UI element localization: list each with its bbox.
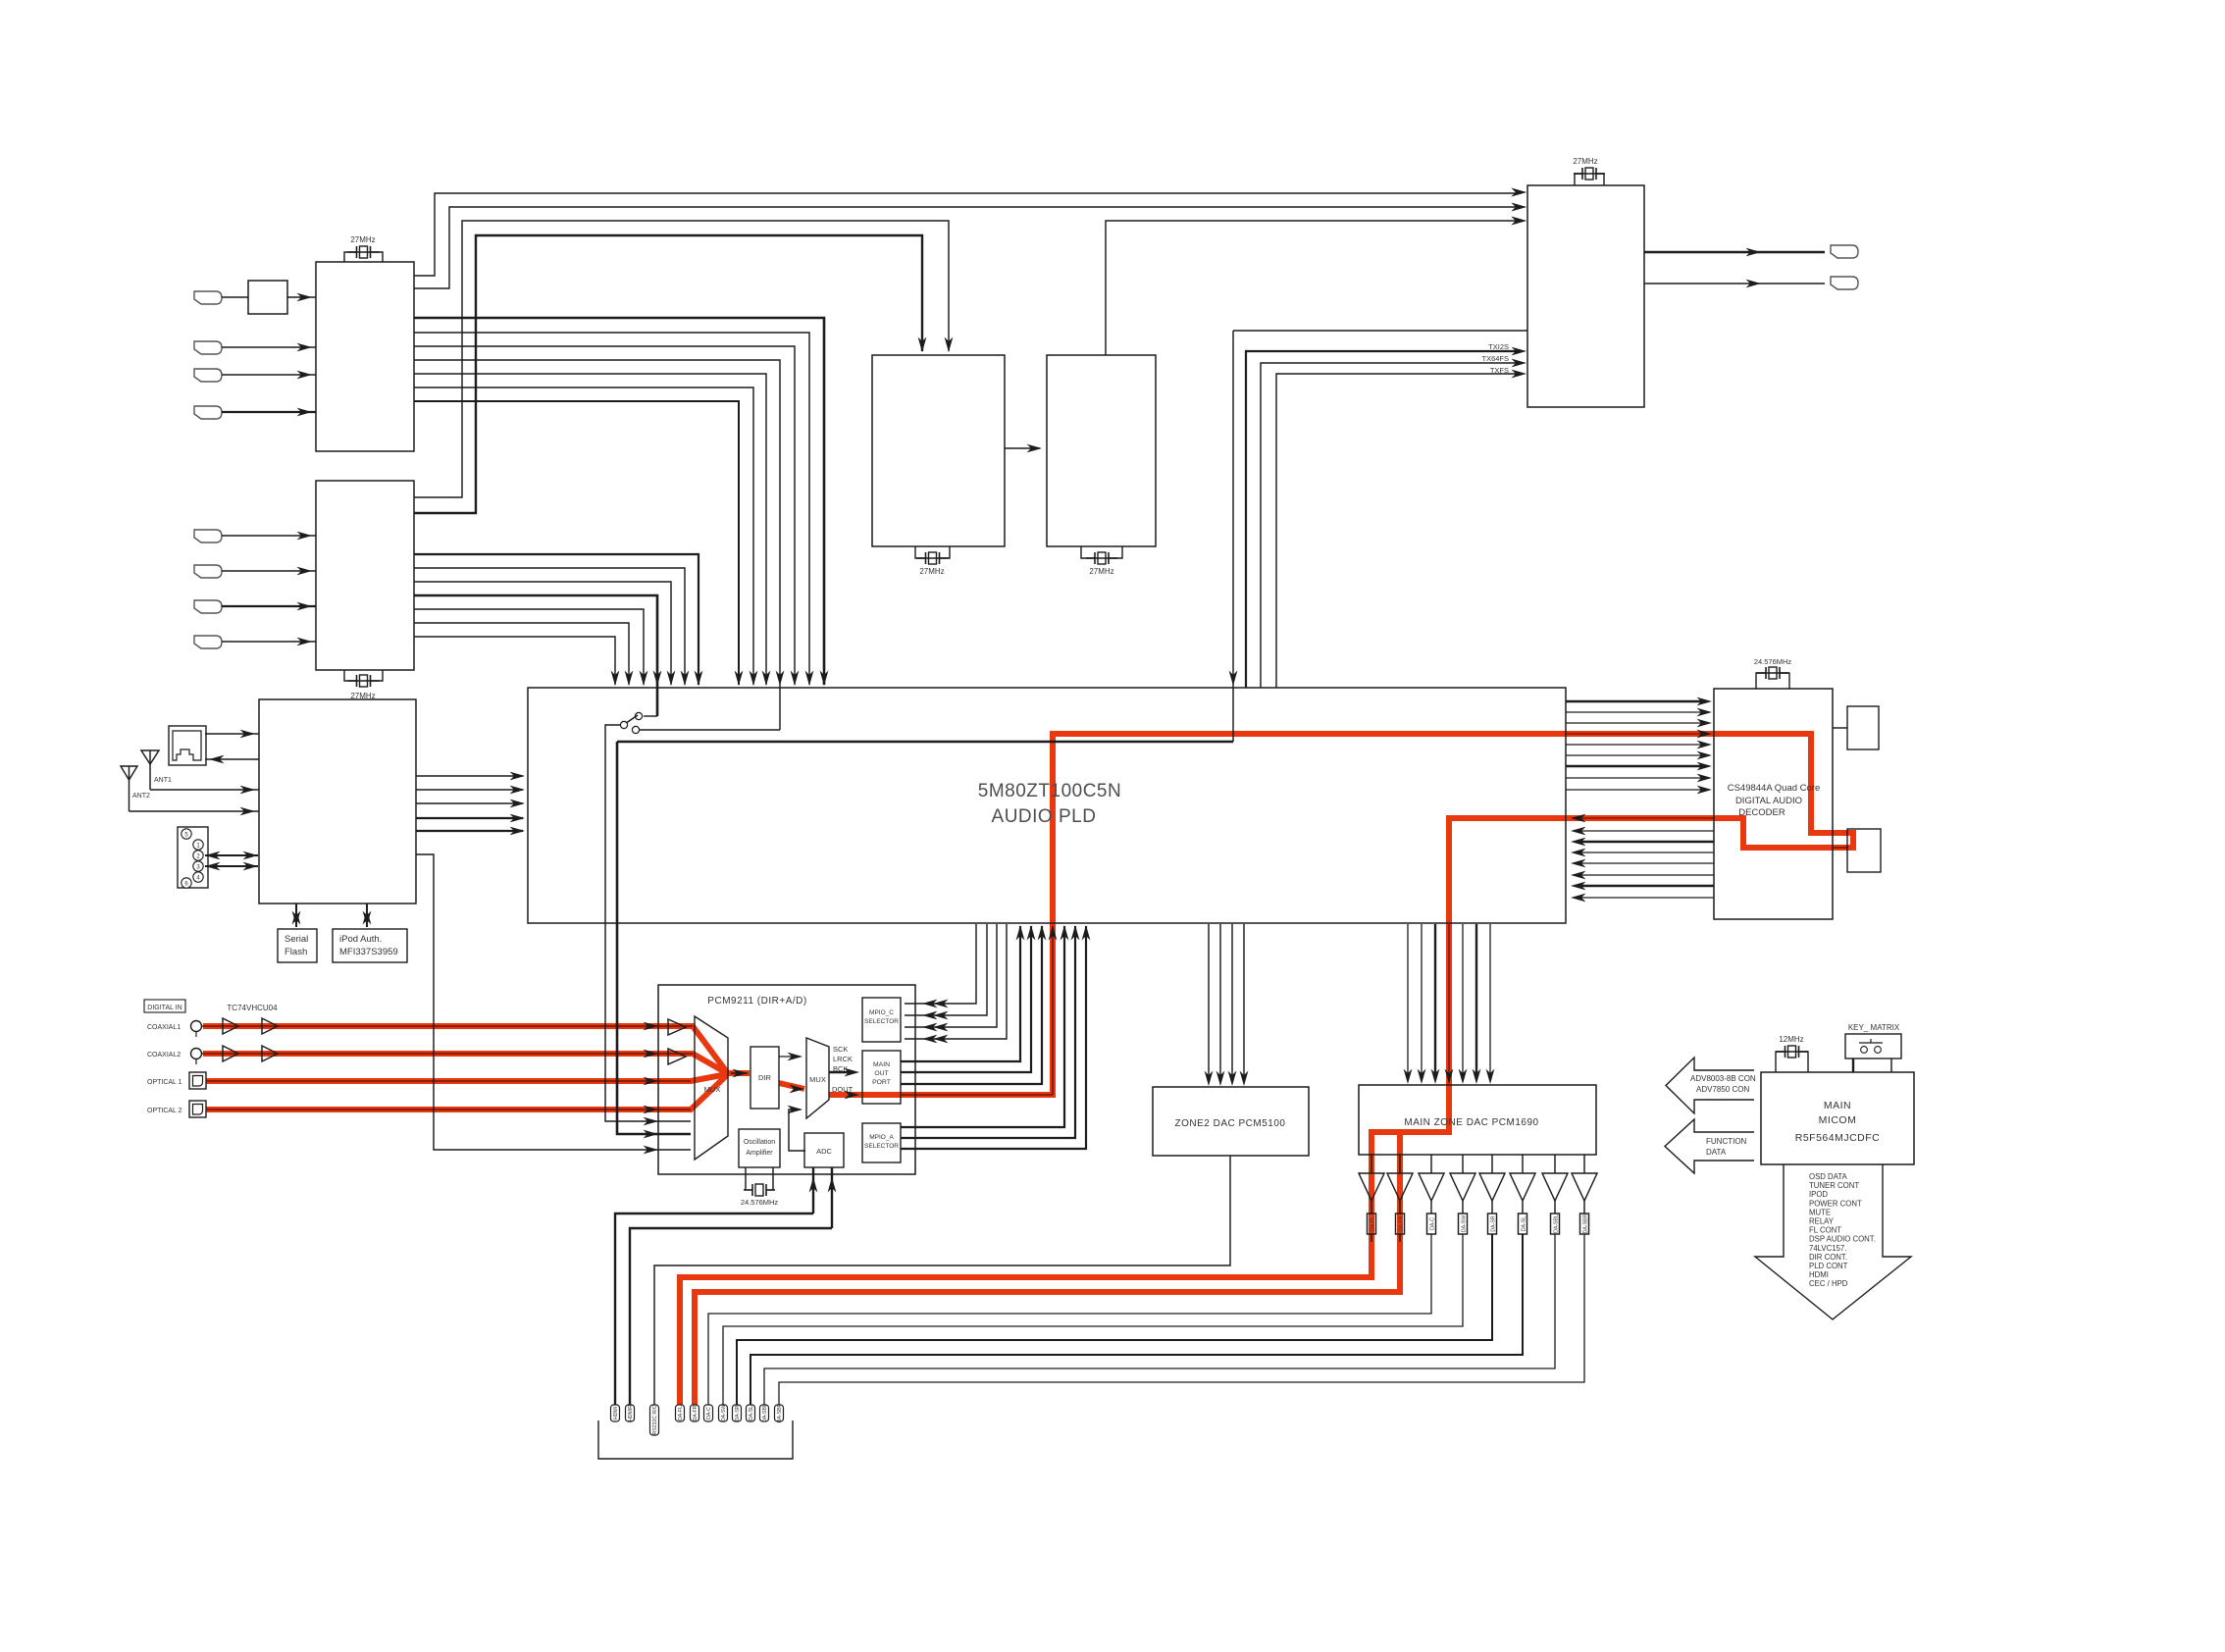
svg-text:RELAY: RELAY xyxy=(1809,1217,1835,1226)
op-amp A3 xyxy=(1419,1173,1444,1201)
resistor R4 DA-SW xyxy=(1459,1213,1468,1234)
wire MAIN OUT to PLD 3 xyxy=(901,926,1042,1084)
connector HDMI in 2 xyxy=(194,341,222,354)
crystal X1 27MHz xyxy=(344,252,383,262)
svg-text:MAIN ZONE DAC PCM1690: MAIN ZONE DAC PCM1690 xyxy=(1404,1117,1538,1128)
svg-text:27MHz: 27MHz xyxy=(350,235,375,244)
crystal X5 27MHz xyxy=(1575,174,1604,185)
wire channel DA-C to connector xyxy=(708,1234,1431,1405)
svg-text:AUDIO PLD: AUDIO PLD xyxy=(992,806,1097,827)
inverter in2 xyxy=(668,1049,686,1064)
block U10 PCM9211 xyxy=(658,985,915,1174)
wire DAC to amp 3 xyxy=(1430,1155,1432,1173)
connector pin DA-SR xyxy=(733,1405,742,1421)
svg-text:CEC / HPD: CEC / HPD xyxy=(1809,1279,1848,1288)
svg-text:TXI2S: TXI2S xyxy=(1488,342,1509,351)
arrow opt1 into PCM9211 xyxy=(644,1077,659,1086)
switch S1 throw xyxy=(632,726,639,733)
wire PLD to MAIN DAC 7 xyxy=(1489,924,1491,1079)
wire ADC input 2 xyxy=(831,1167,833,1228)
connector pin HDMI xyxy=(611,1405,620,1421)
wire U7 to PLD 5 xyxy=(416,830,523,832)
svg-text:FL CONT: FL CONT xyxy=(1809,1226,1841,1235)
block U3 HDMI switch 2 xyxy=(316,481,414,670)
connector HDMI in 6 xyxy=(194,565,222,578)
crystal X4 27MHz xyxy=(1081,546,1122,558)
connector HDMI in 4 xyxy=(194,406,222,419)
wire DIR to MUX2 b (red) xyxy=(790,1085,805,1094)
wire channel DA-SBR to connector xyxy=(779,1234,1584,1405)
wire PLD to MPIO_C 2 xyxy=(905,924,987,1015)
svg-text:MICOM: MICOM xyxy=(1819,1114,1857,1126)
crystal X7 24.576MHz xyxy=(745,1167,747,1190)
wire channel DA-SBL to connector xyxy=(764,1234,1555,1405)
connector mini-DIN xyxy=(178,827,208,888)
bus arrow FUNCTION DATA xyxy=(1665,1119,1754,1173)
crystal X6 24.576MHz xyxy=(1756,673,1789,689)
svg-text:ADV8003-8B CON: ADV8003-8B CON xyxy=(1690,1074,1756,1083)
svg-text:PORT: PORT xyxy=(872,1079,891,1086)
block U6 HDMI transmitter xyxy=(1527,185,1644,407)
wire PLD to ZONE2 DAC 2 xyxy=(1219,924,1221,1081)
wire PLD to ZONE2 DAC 4 xyxy=(1243,924,1245,1081)
crystal X2 27MHz xyxy=(344,670,383,681)
wire in1 to buffer xyxy=(222,296,248,298)
wire coaxial2 xyxy=(202,1053,693,1055)
block SDRAM xyxy=(1847,706,1879,749)
wire amp to resistor 1 xyxy=(1371,1201,1372,1213)
block MPIO_A selector xyxy=(862,1123,901,1162)
wire PLD internal bus xyxy=(617,741,1233,744)
wire coaxial1 xyxy=(202,1025,693,1027)
wire DAC to amp 8 xyxy=(1583,1155,1585,1173)
connector pin DA-SBR xyxy=(775,1405,784,1421)
wire DAC to amp 7 xyxy=(1554,1155,1556,1173)
wire U9 to SDRAM xyxy=(1833,727,1847,729)
wire channel DA-SW to connector xyxy=(723,1234,1463,1405)
mux MUX1 xyxy=(695,1016,728,1160)
svg-text:HDMIR: HDMIR xyxy=(628,1405,634,1421)
wire MUX2 to MAIN OUT xyxy=(829,1071,852,1073)
wire amp to resistor 3 xyxy=(1430,1201,1432,1213)
svg-text:DA-C: DA-C xyxy=(1430,1217,1436,1230)
wire DAC to amp 4 xyxy=(1462,1155,1464,1173)
svg-text:24.576MHz: 24.576MHz xyxy=(1754,657,1792,666)
svg-text:5M80ZT100C5N: 5M80ZT100C5N xyxy=(978,781,1121,801)
svg-text:DIR CONT.: DIR CONT. xyxy=(1809,1253,1847,1262)
wire ANT1 to U7 xyxy=(150,789,259,791)
wire ADC input 1 xyxy=(812,1167,814,1213)
svg-text:ANT1: ANT1 xyxy=(154,777,172,784)
wire DIN pin3 to U7 xyxy=(205,865,258,867)
svg-text:Flash: Flash xyxy=(285,947,307,957)
block U4 video processor xyxy=(872,355,1005,546)
connector HDMI in 5 xyxy=(194,530,222,542)
svg-text:Amplifier: Amplifier xyxy=(746,1150,773,1157)
connector HDMI in 7 xyxy=(194,600,222,613)
wire MPIO_A to PLD 1 xyxy=(901,926,1064,1127)
block MAIN OUT PORT xyxy=(862,1051,901,1104)
wire U7 to serial flash xyxy=(295,903,297,927)
wire DAC to amp 5 xyxy=(1491,1155,1493,1173)
svg-text:SELECTOR: SELECTOR xyxy=(864,1018,899,1025)
buffer U2 xyxy=(248,281,287,314)
wire U1 out4 to PLD xyxy=(414,333,809,685)
inverter coax2 b xyxy=(262,1046,278,1061)
resistor R8 DA-SBR xyxy=(1580,1213,1589,1234)
wire optical2 xyxy=(206,1109,691,1110)
arrow opt2 into PCM9211 xyxy=(644,1106,659,1114)
svg-text:12MHz: 12MHz xyxy=(1779,1035,1803,1044)
wire amp to resistor 7 xyxy=(1554,1201,1556,1213)
wire U7 to PLD 2 xyxy=(416,789,523,791)
block U5 video encoder xyxy=(1047,355,1156,546)
wire U1 out6 to PLD switch xyxy=(414,360,780,727)
svg-text:CS49844A Quad Core: CS49844A Quad Core xyxy=(1728,783,1821,794)
op-amp A2 xyxy=(1387,1173,1413,1201)
resistor R5 DA-SR xyxy=(1488,1213,1497,1234)
wire DSP to PLD 4 xyxy=(1579,852,1714,853)
wire switch pole to PCM9211 xyxy=(605,725,691,1121)
wire U3 outA to video scaler xyxy=(414,221,949,497)
wire MPIO_A to PLD 2 xyxy=(901,926,1075,1138)
svg-text:DIR: DIR xyxy=(758,1073,772,1082)
bus arrow micom outputs xyxy=(1755,1164,1911,1319)
svg-text:HDMI: HDMI xyxy=(1809,1270,1829,1279)
svg-text:HDMI: HDMI xyxy=(613,1407,619,1420)
svg-text:DIGITAL IN: DIGITAL IN xyxy=(147,1005,181,1011)
label micom signal list xyxy=(1809,1172,1876,1288)
svg-text:R5F564MJCDFC: R5F564MJCDFC xyxy=(1795,1132,1881,1144)
block U1 HDMI switch xyxy=(316,262,414,451)
wire DSP to PLD 8 xyxy=(1579,897,1714,899)
wire MPIO_A to PLD 3 xyxy=(901,926,1086,1149)
svg-text:RS232C R/C: RS232C R/C xyxy=(652,1405,658,1434)
wire MUX1 to DIR xyxy=(731,1072,748,1074)
antenna ANT2 xyxy=(121,766,137,780)
wire PLD to U6 config xyxy=(1233,330,1527,332)
wire buffer to U1 xyxy=(287,296,316,298)
block U8 audio PLD 5M80ZT100C5N xyxy=(528,688,1566,923)
op-amp A6 xyxy=(1510,1173,1535,1201)
wire DOUT to PLD (red path) xyxy=(901,1094,1053,1096)
block oscillation amplifier xyxy=(739,1129,780,1167)
svg-text:DA-SBR: DA-SBR xyxy=(777,1403,783,1422)
wire PLD to DSP 9 xyxy=(1566,789,1705,791)
connector HDMI in 1 xyxy=(194,291,222,304)
wire RJ45 to U7 xyxy=(205,733,259,735)
svg-text:MPIO_A: MPIO_A xyxy=(869,1134,894,1141)
wire U3 out4 clock to PLD switch xyxy=(414,595,657,716)
wire U7 to PLD 4 xyxy=(416,817,523,819)
connector HDMI out 2 xyxy=(1831,277,1858,289)
svg-text:DA-SBR: DA-SBR xyxy=(1583,1213,1589,1233)
svg-text:IPOD: IPOD xyxy=(1809,1190,1828,1199)
wire PLD to DSP 1 xyxy=(1566,700,1705,702)
svg-text:DA-FL: DA-FL xyxy=(1371,1216,1376,1231)
wire PLD to ZONE2 DAC 1 xyxy=(1208,924,1210,1081)
svg-text:MAIN: MAIN xyxy=(1824,1100,1851,1111)
op-amp A1 xyxy=(1359,1173,1384,1201)
arrow in3 U6 xyxy=(1512,217,1527,226)
connector HDMI out 1 xyxy=(1831,245,1858,258)
svg-text:LRCK: LRCK xyxy=(833,1055,853,1063)
svg-text:OSD DATA: OSD DATA xyxy=(1809,1172,1847,1181)
svg-text:MFI337S3959: MFI337S3959 xyxy=(339,947,398,957)
wire connector to ADC 2 xyxy=(630,1228,832,1405)
block ADC xyxy=(804,1133,844,1167)
wire PLD to MAIN DAC 1 xyxy=(1407,924,1409,1079)
wire U3 out6 to PLD xyxy=(414,623,629,685)
wire U3 out3 to PLD xyxy=(414,582,671,685)
wire TX64FS xyxy=(1261,363,1519,688)
svg-text:27MHz: 27MHz xyxy=(919,567,944,576)
block DIR xyxy=(750,1047,779,1109)
connector pin DA-C xyxy=(704,1405,713,1421)
wire U6 HDMI out2 xyxy=(1644,283,1825,284)
wire PLD to DSP 8 xyxy=(1566,777,1705,779)
wire amp to resistor 8 xyxy=(1583,1201,1585,1213)
svg-text:DA-SR: DA-SR xyxy=(1491,1215,1497,1231)
svg-text:Oscillation: Oscillation xyxy=(744,1139,775,1146)
mux MUX2 xyxy=(806,1038,829,1118)
wire ANT2 to U7 xyxy=(129,810,260,812)
wire U3 out2 to PLD xyxy=(414,568,685,685)
resistor R6 DA-SL xyxy=(1519,1213,1527,1234)
wire in8 xyxy=(222,641,316,643)
block U9 CS49844A decoder xyxy=(1714,689,1833,919)
resistor R2 DA-FR xyxy=(1396,1213,1405,1234)
arrow coax1 into PCM9211 xyxy=(644,1022,659,1031)
connector HDMI in 3 xyxy=(194,369,222,382)
wire in3 xyxy=(222,374,316,376)
wire PLD to MPIO_C 4 xyxy=(905,924,1007,1039)
wire PLD to DSP 2 xyxy=(1566,711,1705,713)
svg-text:DATA: DATA xyxy=(1706,1148,1727,1157)
wire PLD to ZONE2 DAC 3 xyxy=(1231,924,1233,1081)
antenna ANT1 xyxy=(141,750,159,764)
svg-text:COAXIAL2: COAXIAL2 xyxy=(147,1052,181,1058)
svg-text:DA-SL: DA-SL xyxy=(1522,1216,1527,1231)
svg-text:TC74VHCU04: TC74VHCU04 xyxy=(227,1004,278,1012)
wire DAC to amp 6 xyxy=(1522,1155,1524,1173)
wire ADC to MUX2 xyxy=(789,1110,805,1151)
wire DSP to PLD 1 xyxy=(1579,817,1714,819)
wire channel DA-FL stub xyxy=(1371,1234,1372,1242)
svg-text:74LVC157.: 74LVC157. xyxy=(1809,1244,1846,1253)
wire U1 out8 to PLD xyxy=(414,387,753,685)
connector pin HDMIR xyxy=(626,1405,635,1421)
wire optical1 xyxy=(206,1080,691,1082)
arrow in1 U6 xyxy=(1512,188,1527,197)
resistor R3 DA-C xyxy=(1427,1213,1436,1234)
switch S1 contact top xyxy=(644,715,657,717)
wire in2 xyxy=(222,346,316,348)
wire U6 HDMI out1 xyxy=(1644,251,1825,253)
inverter coax2 a xyxy=(223,1046,238,1061)
wire DIN pin2 to U7 xyxy=(205,854,258,856)
wire PLD to MAIN DAC 4 xyxy=(1448,924,1450,1079)
svg-text:DA-SW: DA-SW xyxy=(1462,1215,1468,1232)
inverter coax1 b xyxy=(262,1018,278,1034)
wire U3 out1 to PLD xyxy=(414,554,699,685)
wire keymatrix to micom 2 xyxy=(1890,1058,1892,1072)
connector pin DA-FL xyxy=(676,1405,685,1421)
svg-text:DA-SL: DA-SL xyxy=(749,1406,754,1420)
svg-text:OPTICAL 1: OPTICAL 1 xyxy=(147,1079,182,1086)
wire U3 out7 to PLD xyxy=(414,637,615,685)
svg-text:ANT2: ANT2 xyxy=(132,793,150,800)
svg-text:PCM9211 (DIR+A/D): PCM9211 (DIR+A/D) xyxy=(707,996,806,1007)
svg-text:SELECTOR: SELECTOR xyxy=(864,1143,899,1150)
svg-text:MPIO_C: MPIO_C xyxy=(869,1009,894,1016)
resistor R7 DA-SBL xyxy=(1551,1213,1560,1234)
wire amp to resistor 5 xyxy=(1491,1201,1493,1213)
wire TXFS xyxy=(1276,374,1519,688)
wire PLD to MPIO_C 1 xyxy=(905,924,976,1004)
svg-text:DA-FR: DA-FR xyxy=(693,1405,699,1420)
wire U3 outB clock to video scaler xyxy=(414,235,922,513)
svg-text:DA-SW: DA-SW xyxy=(721,1405,727,1421)
wire U5 to HDMI TX xyxy=(1106,221,1519,355)
wire PLD to MPIO_C 3 xyxy=(905,924,997,1027)
switch S1 pole xyxy=(620,721,627,728)
wire MAIN OUT to PLD 2 xyxy=(901,926,1031,1072)
crystal X3 27MHz xyxy=(915,546,950,558)
connector RJ45 xyxy=(169,726,206,765)
wire U7 to RJ45 xyxy=(205,758,259,760)
block MPIO_C selector xyxy=(862,998,901,1042)
wire in4 xyxy=(222,411,316,413)
connector group bracket xyxy=(598,1420,793,1459)
svg-text:DA-SBL: DA-SBL xyxy=(1554,1214,1560,1233)
wire in6 xyxy=(222,570,316,572)
op-amp A5 xyxy=(1479,1173,1505,1201)
connector HDMI in 8 xyxy=(194,636,222,648)
svg-text:MAIN: MAIN xyxy=(873,1061,890,1068)
block iPod auth MFI337S3959 xyxy=(333,929,407,962)
wire PLD to MAIN DAC 3 xyxy=(1434,924,1436,1079)
inverter coax1 a xyxy=(223,1018,238,1034)
wire DIR to MUX2 a xyxy=(779,1056,801,1058)
bus arrow ADV8003-8B CON ADV7850 CON xyxy=(1666,1058,1754,1113)
wire PLD to MAIN DAC 2 xyxy=(1421,924,1423,1079)
block key matrix xyxy=(1845,1034,1901,1058)
svg-text:Serial: Serial xyxy=(285,934,308,945)
wire U7 to iPod auth xyxy=(366,903,368,927)
svg-text:DSP AUDIO CONT.: DSP AUDIO CONT. xyxy=(1809,1235,1876,1244)
red highlighted audio signal path xyxy=(203,734,1853,1405)
svg-text:TUNER CONT: TUNER CONT xyxy=(1809,1181,1859,1190)
wire U9 to flash xyxy=(1833,847,1848,849)
svg-text:COAXIAL1: COAXIAL1 xyxy=(147,1024,181,1031)
svg-text:iPod Auth.: iPod Auth. xyxy=(339,934,382,945)
wire amp to resistor 4 xyxy=(1462,1201,1464,1213)
op-amp A4 xyxy=(1450,1173,1475,1201)
wire connector to ADC 1 xyxy=(615,1213,813,1405)
wire DOUT arrow xyxy=(845,1091,860,1100)
wire in7 xyxy=(222,605,316,607)
wire U1 out2 to HDMI TX xyxy=(414,207,1519,288)
svg-text:DA-C: DA-C xyxy=(706,1407,712,1420)
wire DSP to PLD 2 xyxy=(1579,830,1714,832)
svg-text:ADC: ADC xyxy=(816,1147,832,1156)
connector pin RS232C R/C xyxy=(650,1405,659,1435)
svg-text:MUTE: MUTE xyxy=(1809,1208,1831,1216)
wire DSP to PLD 5 xyxy=(1579,862,1714,864)
block U7 network module xyxy=(259,699,416,903)
svg-text:OPTICAL 2: OPTICAL 2 xyxy=(147,1108,182,1114)
label DIGITAL IN xyxy=(144,1000,185,1012)
wire channel DA-FR stub xyxy=(1399,1234,1401,1242)
wire vertical PLD junction xyxy=(1232,331,1234,742)
wire U1 out7 to PLD xyxy=(414,374,766,685)
svg-text:SCK: SCK xyxy=(833,1045,848,1054)
block DSP flash xyxy=(1847,829,1881,872)
svg-text:27MHz: 27MHz xyxy=(1089,567,1113,576)
svg-text:DA-FR: DA-FR xyxy=(1399,1215,1405,1231)
svg-text:OUT: OUT xyxy=(874,1070,888,1077)
wire TXI2S xyxy=(1246,351,1519,688)
wire PLD to MAIN DAC 6 xyxy=(1475,924,1477,1079)
wire U4 to U5 xyxy=(1005,447,1040,449)
wire PLD to DSP 7 xyxy=(1566,765,1705,767)
svg-text:24.576MHz: 24.576MHz xyxy=(741,1198,779,1207)
wire DSP to PLD 3 xyxy=(1579,841,1714,843)
wire U1 out1 to HDMI TX xyxy=(414,193,1519,276)
wire DAC to amp 2 xyxy=(1399,1155,1401,1173)
wire PLD to DSP 6 xyxy=(1566,754,1705,756)
svg-text:ZONE2 DAC PCM5100: ZONE2 DAC PCM5100 xyxy=(1175,1118,1286,1129)
block U11 MAIN MICOM xyxy=(1761,1072,1914,1164)
wire DSP to PLD 7 xyxy=(1579,885,1714,887)
svg-text:PLD CONT: PLD CONT xyxy=(1809,1262,1848,1270)
op-amp A8 xyxy=(1572,1173,1597,1201)
wire keymatrix to micom 1 xyxy=(1852,1058,1854,1072)
inverter in1 xyxy=(668,1019,686,1035)
wire DAC to amp 1 xyxy=(1371,1155,1372,1173)
wire channel DA-SR to connector xyxy=(737,1234,1492,1405)
svg-text:DA-SBL: DA-SBL xyxy=(762,1404,768,1422)
wire U1 out3 clock to PLD xyxy=(414,318,824,685)
block ZONE2 DAC PCM5100 xyxy=(1153,1087,1309,1156)
svg-text:DECODER: DECODER xyxy=(1738,807,1785,818)
wire MAIN OUT to PLD 1 xyxy=(901,926,1020,1061)
svg-text:DIGITAL AUDIO: DIGITAL AUDIO xyxy=(1735,796,1802,806)
svg-text:TX64FS: TX64FS xyxy=(1481,354,1509,363)
block MAIN ZONE DAC PCM1690 xyxy=(1359,1085,1596,1155)
svg-text:DA-SR: DA-SR xyxy=(735,1405,741,1420)
svg-text:27MHz: 27MHz xyxy=(1573,157,1597,166)
connector pin DA-SL xyxy=(747,1405,755,1421)
wire PLD to PCM9211 b xyxy=(617,742,691,1134)
svg-text:DA-FL: DA-FL xyxy=(678,1406,684,1420)
wire U7 to PLD 1 xyxy=(416,775,523,777)
wire U1 out5 to PLD xyxy=(414,346,795,685)
wire U7 to PCM9211 xyxy=(416,854,691,1150)
wire PLD to MAIN DAC 5 xyxy=(1462,924,1464,1079)
wire amp to resistor 6 xyxy=(1522,1201,1524,1213)
wire PLD to DSP 5 xyxy=(1566,744,1705,746)
arrow coax2 into PCM9211 xyxy=(644,1050,659,1058)
connector pin DA-SW xyxy=(719,1405,728,1421)
wire U3 out5 to PLD xyxy=(414,609,644,685)
wire PLD to DSP 3 xyxy=(1566,722,1705,724)
wire channel DA-SL to connector xyxy=(750,1234,1523,1405)
resistor R1 DA-FL xyxy=(1368,1213,1376,1234)
block serial flash xyxy=(278,929,317,962)
connector pin DA-FR xyxy=(691,1405,699,1421)
